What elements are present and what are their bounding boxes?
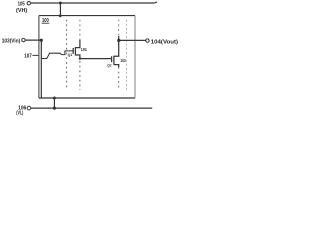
wire VL stub	[53, 98, 55, 108]
svg-text:(VH): (VH)	[16, 8, 27, 14]
svg-text:Q1: Q1	[68, 52, 73, 57]
junction dot on VH rail	[59, 2, 62, 5]
svg-text:102: 102	[120, 58, 126, 64]
wire VL bottom rail	[31, 107, 153, 109]
svg-text:104(Vout): 104(Vout)	[151, 40, 178, 46]
dashed line above Q2 drain	[118, 20, 120, 36]
box 100	[39, 15, 135, 17]
source jog Q1	[75, 55, 80, 59]
dashed line below Q2 source	[118, 67, 120, 90]
wire VH rail end tick	[155, 2, 158, 3]
leader dash of 107	[32, 54, 38, 56]
svg-text:(VL): (VL)	[16, 111, 23, 117]
junction dot Q1 source	[79, 57, 81, 59]
node VH rail	[31, 2, 157, 3]
drain jog Q1	[75, 40, 80, 48]
transistor 101	[73, 40, 80, 59]
terminal circle VL	[27, 106, 31, 110]
svg-text:107: 107	[24, 54, 32, 60]
wire Q1 source to Q2 gate	[80, 58, 112, 60]
wire Vin to gate of Q1 (wiggly)	[41, 51, 73, 59]
svg-text:101: 101	[81, 47, 87, 53]
junction dot Vin	[40, 39, 43, 42]
wire Vin vertical down to box bottom	[40, 40, 42, 98]
wire Vin horizontal	[25, 39, 41, 41]
junction dot on VL rail	[53, 107, 56, 110]
drain jog Q2	[114, 36, 119, 56]
channel bar Q1	[74, 47, 76, 55]
channel bar Q2	[113, 56, 115, 65]
terminal circle Vout	[146, 39, 149, 42]
junction dot Vout	[117, 39, 120, 42]
gate bar Q2	[111, 56, 113, 62]
gate bar Q1	[72, 48, 74, 54]
source jog Q2	[114, 65, 119, 67]
dashed line right	[126, 20, 128, 90]
dashed line left	[66, 20, 68, 90]
wire VH top rail	[31, 2, 155, 4]
dashed line above Q1 drain	[79, 20, 81, 40]
transistor 102	[112, 36, 119, 67]
wire VH stub into box 100	[59, 3, 61, 16]
svg-text:Q2: Q2	[107, 62, 112, 67]
terminal 105 (VH) circle	[27, 2, 30, 5]
svg-text:103(Vin): 103(Vin)	[2, 39, 21, 45]
junction dot at box bottom edge (VL stub)	[53, 97, 56, 100]
dashed line below Q1 source	[79, 61, 81, 90]
svg-text:105: 105	[18, 2, 25, 8]
wire Vout	[119, 39, 146, 41]
junction dot at box top edge	[59, 14, 62, 17]
terminal circle Vin	[22, 38, 25, 41]
